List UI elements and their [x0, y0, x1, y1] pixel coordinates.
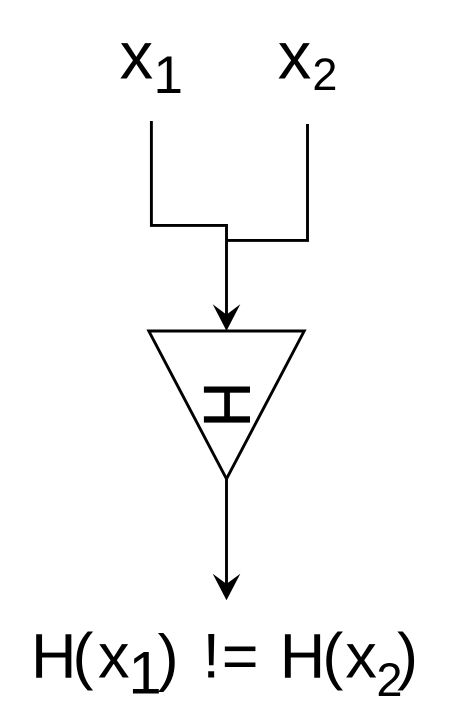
- svg-text:): ): [397, 621, 418, 691]
- svg-text:2: 2: [312, 49, 337, 100]
- svg-text:(: (: [72, 621, 93, 691]
- arrowhead to output: [213, 574, 241, 601]
- node x2 label: [278, 18, 338, 100]
- svg-text:H: H: [280, 621, 326, 691]
- wire jog at junction: [225, 224, 228, 240]
- rotated H symbol inside node: [204, 387, 250, 423]
- svg-text:x: x: [278, 18, 312, 93]
- hash function node U1 (inverted triangle): [149, 331, 304, 479]
- svg-text:): ): [158, 623, 179, 693]
- svg-text:x: x: [120, 18, 153, 93]
- svg-text:(: (: [322, 621, 343, 691]
- svg-text:H: H: [31, 621, 77, 691]
- svg-text:x: x: [98, 621, 130, 691]
- svg-text:1: 1: [154, 46, 183, 105]
- node x1 label: [120, 18, 183, 105]
- svg-text:x: x: [345, 621, 377, 691]
- arrowhead into hash node: [213, 304, 241, 331]
- svg-text:=: =: [222, 621, 259, 691]
- output label H(x1) != H(x2): [31, 621, 418, 706]
- wire from x1 down and right to junction: [151, 121, 226, 225]
- wire arrow stem into hash node: [225, 240, 228, 317]
- svg-text:!: !: [202, 621, 220, 691]
- wire output stem from node apex: [225, 479, 228, 586]
- wire from x2 down and left to junction: [227, 124, 308, 240]
